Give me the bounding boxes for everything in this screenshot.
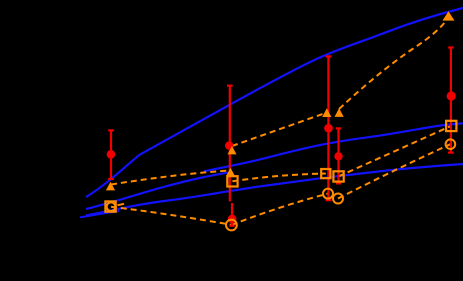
triangle T3b: [335, 108, 344, 117]
red error bar R2a (long bar at x=229.6): [227, 86, 233, 202]
triangle T2b: [226, 168, 235, 176]
dashed orange S-line-3: square(338.5,178.3) to square(450.3,125.8): [339, 126, 452, 176]
dashed orange T-line-2: triangle(232,149.5) to triangle(326.8,112.5): [232, 113, 327, 147]
triangle T3a: [322, 108, 331, 117]
red data point R3a: [324, 124, 333, 133]
red error bar R4: [448, 48, 454, 153]
open circle C3a: [323, 189, 333, 199]
red data point R1: [107, 150, 116, 159]
blue curve B1 (top hydro curve): [86, 8, 463, 197]
dashed orange C-line-1: circle(111,206.7) to circle(231.4,224.5): [111, 207, 231, 225]
open square S3a: [321, 169, 330, 178]
triangle T1: [106, 182, 115, 191]
open circle C4: [446, 139, 456, 149]
short dash stub right of square S1: [118, 204, 125, 205]
open circle C2: [226, 220, 237, 231]
triangle T2a: [228, 146, 237, 154]
red error bar R3a: [326, 56, 332, 200]
red data point R2a: [225, 141, 233, 149]
open square S3b: [333, 171, 343, 181]
open circle C1 (inside S1): [107, 202, 116, 211]
red data point R4: [447, 91, 456, 100]
blue curve B3: [86, 164, 463, 215]
blue curve B2 right strand: [204, 123, 463, 171]
dashed orange C-line-2: circle(231.4,225.1) to circle(328,193.6): [231, 194, 328, 226]
open square S2: [227, 176, 237, 186]
open square S1: [105, 201, 115, 211]
red data point R2b: [228, 215, 237, 224]
dashed orange T-line-1: triangle(110.5,186) to triangle(230.5,171): [111, 171, 231, 185]
red error bar R3b: [336, 128, 341, 183]
dashed orange S-line-2: square(232.4,181.3) to square(325.8,173.5): [232, 174, 325, 182]
open circle C3b: [333, 194, 343, 204]
blue curve B4 (short, fades under B3): [80, 211, 119, 217]
red error bar R2b: [229, 203, 234, 226]
red data point R3b: [334, 152, 342, 160]
dashed orange C-line-3: circle(338,198.5) to circle(450.5,144.7): [338, 144, 450, 198]
dashed orange T-line-3: triangle(339,110) to triangle(449.5,16): [339, 19, 447, 109]
red error bar R1: [108, 130, 114, 179]
blue curve B2 left strand: [86, 172, 231, 209]
open square S4: [446, 121, 456, 131]
triangle T4: [443, 11, 455, 20]
